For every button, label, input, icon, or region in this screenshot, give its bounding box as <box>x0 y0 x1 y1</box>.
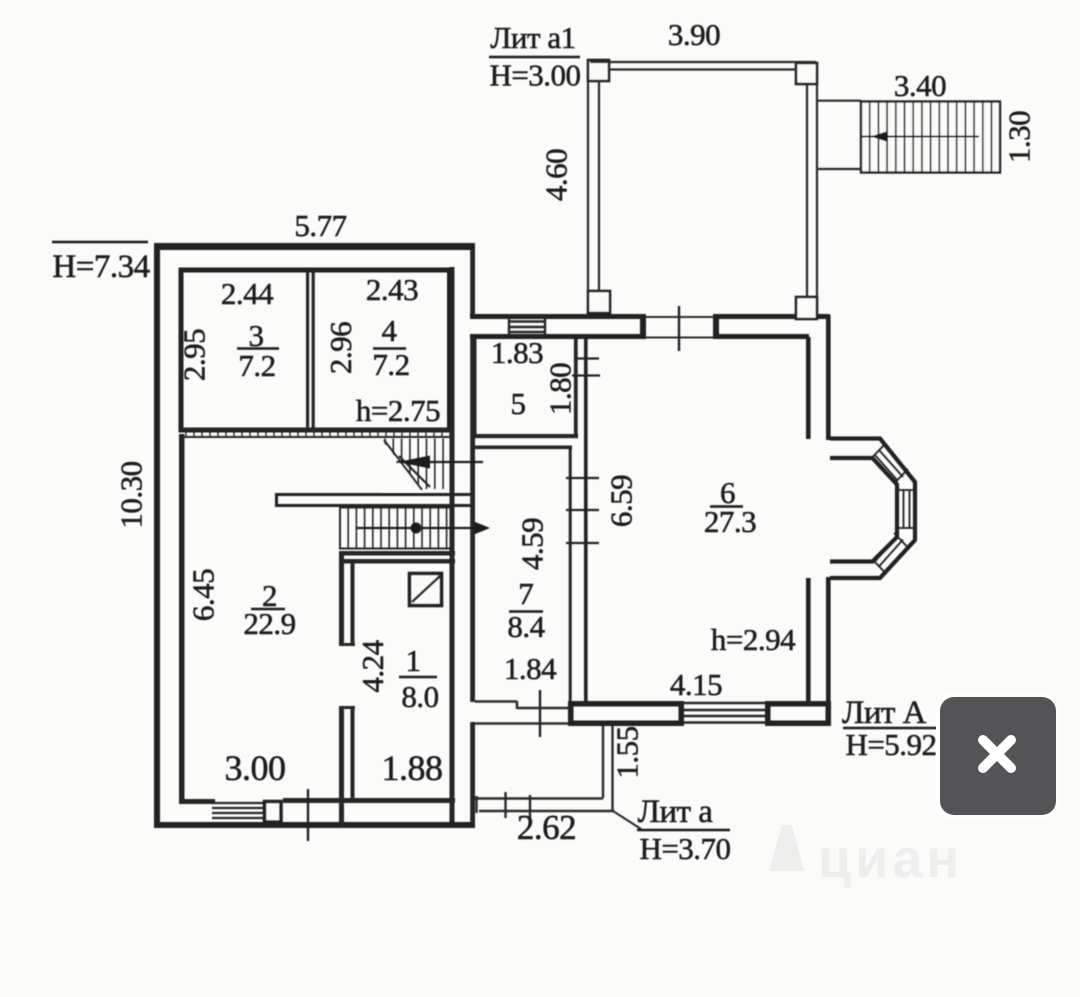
leader line to Lit a <box>613 811 641 829</box>
svg-text:3.40: 3.40 <box>894 68 946 103</box>
bay window outer path <box>830 439 915 579</box>
dim tick door opening x679 <box>678 306 680 351</box>
svg-text:h=2.75: h=2.75 <box>356 393 440 428</box>
dim tick bottom wall x308 <box>307 789 309 841</box>
svg-text:4.60: 4.60 <box>539 149 574 201</box>
room 5 wall bottom <box>471 434 578 438</box>
svg-text:6.59: 6.59 <box>604 475 639 527</box>
boiler square with diagonal <box>410 574 442 606</box>
sill band ticks <box>186 429 450 437</box>
svg-text:7: 7 <box>518 576 533 611</box>
svg-text:1.55: 1.55 <box>610 726 645 778</box>
window 1.83 mid glazing lines <box>509 314 545 339</box>
svg-text:7.2: 7.2 <box>238 348 275 383</box>
veranda post bottom-left <box>588 291 610 313</box>
svg-text:Лит А: Лит А <box>842 695 927 731</box>
stair upper flight direction arrow <box>396 461 483 463</box>
svg-text:27.3: 27.3 <box>704 504 756 539</box>
wall main-house top right band <box>713 314 830 319</box>
room 1 wall left band <box>339 551 344 646</box>
wall left-block left inner face line <box>179 434 185 804</box>
bay glazing bottom diagonal <box>873 533 909 574</box>
svg-text:2.62: 2.62 <box>517 808 576 847</box>
wall left-block outer right: below doorway <box>470 722 475 822</box>
svg-text:Н=5.92: Н=5.92 <box>845 727 936 762</box>
entrance stair center line <box>861 136 979 138</box>
wall left-block bottom outer line <box>154 822 475 828</box>
dim ticks 1.80 <box>572 359 600 376</box>
watermark cian <box>769 825 963 889</box>
veranda wall left double <box>588 62 599 295</box>
entrance stair top-right <box>861 102 1000 173</box>
wall left-block outer right: upper segment <box>470 250 475 315</box>
svg-text:Н=3.70: Н=3.70 <box>639 831 730 866</box>
wall left-block outer right: mid segment <box>470 336 475 702</box>
svg-text:4.59: 4.59 <box>515 518 550 570</box>
stair upper flight treads <box>385 439 451 490</box>
stair lower flight treads <box>340 508 447 549</box>
svg-text:8.4: 8.4 <box>507 609 545 644</box>
svg-text:Лит а1: Лит а1 <box>490 20 575 55</box>
svg-text:Н=3.00: Н=3.00 <box>489 58 580 93</box>
sill band below rooms 3-4 <box>183 429 452 437</box>
svg-text:2.43: 2.43 <box>366 272 418 307</box>
veranda wall top double <box>590 62 816 70</box>
room 5 wall left <box>472 337 477 436</box>
svg-text:1.80: 1.80 <box>543 363 578 415</box>
wall main-house bottom band center <box>568 701 684 707</box>
stair landing bar <box>275 493 474 507</box>
entrance stair outline <box>861 102 1000 173</box>
svg-text:4: 4 <box>382 313 398 348</box>
veranda post top-right <box>796 63 817 84</box>
wall main-house bottom, door channel thin lines <box>475 701 570 724</box>
wall corridor/room6 line <box>584 339 588 701</box>
svg-text:2.95: 2.95 <box>177 329 212 381</box>
veranda post top-left <box>588 60 609 81</box>
svg-text:2.44: 2.44 <box>221 276 274 311</box>
svg-text:7.2: 7.2 <box>372 347 409 382</box>
top wall end cap at door <box>640 314 646 339</box>
stair connection lines <box>818 101 861 169</box>
wall main-house bottom band right <box>765 701 831 707</box>
pillar box right of window <box>265 802 282 823</box>
svg-text:22.9: 22.9 <box>243 606 295 641</box>
wall main-house top band: outer line <box>470 314 644 319</box>
room 7 right wall line <box>569 446 572 701</box>
dim ticks on corridor wall <box>566 478 599 543</box>
stair upper flight cut wedge <box>382 441 424 492</box>
svg-text:циан: циан <box>818 829 963 889</box>
svg-text:3.00: 3.00 <box>225 748 286 788</box>
svg-text:1.30: 1.30 <box>1002 111 1037 163</box>
veranda post bottom-right <box>796 297 817 319</box>
stair upper flight <box>382 439 483 493</box>
svg-text:Лит а: Лит а <box>638 794 714 830</box>
svg-text:2.96: 2.96 <box>323 322 358 374</box>
svg-text:8.0: 8.0 <box>401 679 438 714</box>
entrance stair arrow <box>871 131 888 142</box>
room 1 door jamb caps <box>339 643 355 646</box>
svg-text:6.45: 6.45 <box>186 569 221 621</box>
close button <box>936 693 1060 819</box>
room-box / room1 right inner line <box>450 267 455 822</box>
right wall above bay <box>808 315 828 440</box>
svg-text:10.30: 10.30 <box>114 461 149 528</box>
svg-text:h=2.94: h=2.94 <box>711 622 796 657</box>
porch <box>475 725 614 818</box>
veranda wall right double <box>807 84 817 297</box>
partition rooms 3/4 double line <box>306 270 309 431</box>
wall left-block outer left line <box>154 243 160 828</box>
window 4.15 in bottom wall <box>684 703 765 723</box>
room 3-4 box outline <box>181 270 450 430</box>
stair upper flight cut diagonals <box>384 440 422 490</box>
room 7 wall top <box>471 446 572 450</box>
svg-text:4.15: 4.15 <box>670 667 722 702</box>
svg-text:1.84: 1.84 <box>504 651 557 686</box>
wall left-block outer top line <box>154 243 475 250</box>
bay window inner path <box>830 458 897 562</box>
entrance stair treads <box>861 102 992 173</box>
room 5 wall right <box>574 339 578 436</box>
svg-text:4.24: 4.24 <box>355 639 390 692</box>
svg-text:3.90: 3.90 <box>668 17 720 52</box>
wall left-block bottom inner line <box>181 799 215 804</box>
stair lower flight direction arrow <box>356 527 480 529</box>
wall main-house top band: inner line <box>470 334 644 339</box>
svg-text:1.88: 1.88 <box>382 748 443 788</box>
window in left-block bottom wall <box>212 803 263 818</box>
bay glazing right vertical <box>897 490 915 528</box>
svg-text:5.77: 5.77 <box>294 208 346 243</box>
svg-text:5: 5 <box>511 386 526 421</box>
dim tick door bottom x540 <box>539 690 541 737</box>
room 1 wall top band <box>339 551 455 556</box>
bay glazing top diagonal <box>873 443 909 484</box>
svg-text:Н=7.34: Н=7.34 <box>52 249 149 285</box>
door opening thin lines <box>646 317 714 338</box>
svg-text:1: 1 <box>406 643 421 678</box>
stair lower flight outline <box>340 508 452 549</box>
svg-text:1.83: 1.83 <box>491 335 543 370</box>
right wall below bay <box>808 577 828 703</box>
stair lower flight <box>340 508 490 549</box>
